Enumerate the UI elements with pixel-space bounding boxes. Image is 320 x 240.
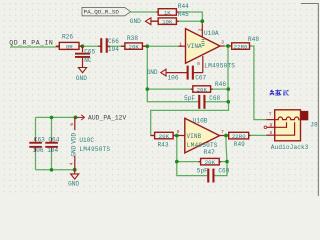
wire power top rail bbox=[36, 116, 78, 118]
op-amp U10A bbox=[186, 29, 236, 70]
pin T jack bbox=[267, 112, 275, 120]
audio jack J8 bbox=[271, 110, 318, 151]
svg-text:8: 8 bbox=[196, 62, 202, 65]
svg-text:10K: 10K bbox=[162, 19, 173, 26]
svg-text:1K: 1K bbox=[164, 9, 171, 16]
svg-text:PA_QD_R_SD: PA_QD_R_SD bbox=[84, 9, 120, 16]
svg-text:3: 3 bbox=[221, 40, 224, 46]
junction at C64 bottom bbox=[50, 168, 54, 172]
svg-text:GND: GND bbox=[147, 69, 158, 76]
pin 3 U10A bbox=[220, 40, 225, 47]
capacitor C64 bbox=[45, 136, 59, 154]
svg-text:R44: R44 bbox=[178, 3, 189, 10]
wire C68 right to tap bbox=[151, 102, 229, 136]
wire C63 column bbox=[35, 117, 37, 169]
svg-text:R26: R26 bbox=[62, 33, 73, 40]
junction at C64 top bbox=[50, 116, 54, 120]
junction at R44/R45 bbox=[200, 19, 204, 23]
svg-text:C65: C65 bbox=[84, 48, 95, 55]
pin 2 U10A bbox=[198, 24, 205, 46]
svg-text:106: 106 bbox=[168, 75, 179, 82]
pin 6 U10C (VDD) bbox=[69, 117, 78, 143]
junction at U10B input pin 9 bbox=[175, 134, 179, 138]
svg-text:22R0: 22R0 bbox=[232, 133, 246, 140]
svg-text:T: T bbox=[269, 112, 272, 118]
svg-text:C69: C69 bbox=[218, 167, 229, 174]
pin 1 U10A bbox=[179, 41, 186, 47]
svg-text:R48: R48 bbox=[248, 36, 259, 43]
resistor R45 bbox=[151, 11, 189, 26]
svg-text:22R0: 22R0 bbox=[234, 43, 248, 50]
junction at U10C GND pin bbox=[73, 168, 77, 172]
svg-text:5pF: 5pF bbox=[184, 95, 195, 102]
svg-text:1: 1 bbox=[179, 41, 182, 47]
power unit U10C bbox=[79, 137, 110, 153]
resistor R43 bbox=[151, 132, 175, 148]
svg-text:194: 194 bbox=[108, 46, 119, 53]
capacitor C65 bbox=[75, 46, 96, 67]
svg-text:S: S bbox=[270, 130, 273, 136]
svg-text:LM4950TS: LM4950TS bbox=[79, 146, 110, 153]
svg-text:GND: GND bbox=[76, 75, 87, 82]
svg-text:GND: GND bbox=[70, 145, 77, 156]
capacitor C63 bbox=[29, 136, 45, 154]
svg-text:7: 7 bbox=[221, 129, 224, 135]
svg-text:R38: R38 bbox=[127, 35, 138, 42]
svg-text:LM4950TS: LM4950TS bbox=[204, 62, 235, 69]
capacitor C66 bbox=[98, 38, 119, 53]
wire feedback A right vertical bbox=[227, 46, 229, 102]
junction at R46 left bbox=[146, 87, 150, 91]
wire C69 loop bbox=[177, 162, 227, 176]
svg-text:AUD_PA_12V: AUD_PA_12V bbox=[88, 115, 126, 122]
wire C64 column bbox=[51, 117, 53, 169]
svg-text:2: 2 bbox=[198, 28, 204, 31]
resistor R48 bbox=[230, 36, 260, 50]
svg-text:0R: 0R bbox=[66, 44, 73, 51]
wire main input rail bbox=[10, 45, 179, 48]
svg-text:20K: 20K bbox=[128, 44, 139, 51]
svg-text:R49: R49 bbox=[234, 141, 245, 148]
sheet border bbox=[301, 4, 318, 196]
svg-text:GND: GND bbox=[130, 18, 141, 25]
junction at U10B output bbox=[224, 134, 228, 138]
global label PA_QD_R_SD bbox=[82, 7, 131, 16]
junction at R47 right bbox=[225, 160, 229, 164]
junction at R47 left bbox=[175, 160, 179, 164]
svg-text:U10C: U10C bbox=[79, 137, 94, 144]
svg-text:NC: NC bbox=[84, 57, 92, 64]
wire U10B feedback right vertical bbox=[226, 144, 227, 162]
pin 8 U10A bbox=[196, 56, 203, 73]
wire R43 to pin9 bbox=[173, 135, 179, 137]
pin 7 U10B bbox=[220, 129, 224, 136]
wire feedback A left vertical bbox=[147, 46, 199, 102]
junction at R46 right bbox=[227, 87, 231, 91]
wire R47 rail bbox=[177, 161, 227, 163]
CJK text 头戴式 (hand drawn) bbox=[270, 90, 289, 96]
pin 9 U10B bbox=[177, 129, 185, 136]
resistor R26 bbox=[56, 33, 83, 50]
svg-text:AudioJack3: AudioJack3 bbox=[271, 144, 309, 151]
svg-text:R43: R43 bbox=[158, 141, 169, 148]
capacitor C68 bbox=[184, 95, 221, 109]
wire U10A output bbox=[225, 46, 267, 120]
wire power bottom rail bbox=[36, 169, 75, 171]
svg-text:20K: 20K bbox=[159, 133, 170, 140]
junction at U10A output bbox=[226, 44, 230, 48]
svg-text:GND: GND bbox=[68, 181, 79, 188]
resistor R49 bbox=[228, 132, 251, 148]
svg-text:C67: C67 bbox=[195, 75, 206, 82]
svg-text:C64: C64 bbox=[48, 136, 59, 143]
svg-text:20K: 20K bbox=[197, 86, 208, 93]
ground below C65 bbox=[76, 68, 87, 82]
wire pin9 down to R47 rail bbox=[176, 136, 178, 162]
svg-text:C66: C66 bbox=[108, 38, 119, 45]
junction at R38 output node bbox=[146, 44, 150, 48]
svg-text:6: 6 bbox=[69, 123, 75, 126]
svg-text:VDD: VDD bbox=[70, 132, 77, 143]
svg-text:106: 106 bbox=[33, 147, 44, 154]
pin 4 U10C (GND) bbox=[68, 145, 77, 170]
junction at R26/C65 bbox=[81, 44, 85, 48]
svg-text:4: 4 bbox=[68, 162, 74, 165]
ground left of R45 bbox=[130, 18, 151, 25]
wire top label rail bbox=[131, 12, 203, 24]
svg-text:20K: 20K bbox=[205, 159, 216, 166]
resistor R47 bbox=[199, 149, 222, 166]
junction at C68 right bbox=[227, 100, 231, 104]
svg-text:VINB: VINB bbox=[187, 133, 202, 140]
ground below U10C bbox=[68, 170, 79, 188]
svg-text:C63: C63 bbox=[34, 136, 45, 143]
svg-text:J8: J8 bbox=[310, 121, 318, 128]
svg-text:9: 9 bbox=[177, 129, 180, 135]
svg-text:R46: R46 bbox=[215, 81, 226, 88]
capacitor C67 bbox=[166, 66, 207, 82]
svg-text:QD_R_PA_IN: QD_R_PA_IN bbox=[9, 40, 53, 47]
svg-text:5pF: 5pF bbox=[197, 167, 208, 174]
svg-text:U10B: U10B bbox=[193, 118, 208, 125]
svg-text:C68: C68 bbox=[209, 95, 220, 102]
resistor R44 bbox=[157, 3, 190, 16]
pin R jack (unconnected) bbox=[264, 122, 275, 128]
svg-text:R45: R45 bbox=[178, 11, 189, 18]
wire U10B output bbox=[224, 135, 267, 143]
ground left of C67 bbox=[147, 69, 166, 76]
power flag AUD_PA_12V bbox=[77, 115, 127, 122]
wire R46 rail bbox=[147, 88, 228, 90]
pin S jack bbox=[267, 130, 275, 136]
resistor R46 bbox=[191, 81, 227, 93]
op-amp U10B bbox=[185, 118, 220, 153]
svg-text:R: R bbox=[270, 122, 273, 128]
junction at AUD_PA_12V bbox=[74, 116, 78, 120]
svg-text:104: 104 bbox=[47, 147, 58, 154]
capacitor C69 bbox=[197, 167, 230, 182]
svg-text:R47: R47 bbox=[204, 149, 215, 156]
svg-text:LM4950TS: LM4950TS bbox=[187, 142, 218, 149]
resistor R38 bbox=[121, 35, 146, 50]
svg-text:U10A: U10A bbox=[204, 30, 219, 37]
svg-text:VINA: VINA bbox=[187, 43, 202, 50]
